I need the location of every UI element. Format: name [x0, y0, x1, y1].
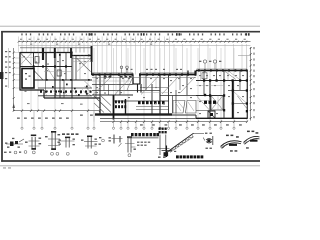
stair flight squares A [115, 100, 117, 103]
room diagonals middle [93, 76, 112, 95]
balcony pier 2 [70, 48, 72, 58]
wall x72 [71, 53, 73, 99]
wall x152 [151, 84, 153, 114]
frame top border [1, 31, 260, 33]
left dimension arrow [13, 103, 15, 108]
top dimension line 2 [18, 44, 251, 46]
left small column blobs [42, 52, 44, 54]
detail 1 label [14, 151, 17, 154]
detail 4 label [66, 152, 69, 155]
wall y95 mid [92, 94, 133, 96]
wall y95 mid-right [160, 95, 196, 97]
top grid number cluster 1 [89, 33, 91, 35]
small closet box [35, 57, 39, 64]
wall y103 right [234, 103, 247, 105]
heavy wall x113 [113, 95, 115, 120]
balcony pier 1 [54, 48, 56, 58]
top grid number row [21, 33, 22, 35]
wall x168 [168, 75, 170, 114]
outline bottom right [172, 114, 196, 116]
wall x60 [59, 53, 61, 99]
binding mark on left frame [0, 72, 3, 79]
notes text block [137, 142, 139, 143]
wall y80 left band [34, 79, 92, 81]
wall band under middle top [92, 77, 196, 79]
x-room [211, 96, 223, 111]
heavy pier left top [42, 48, 44, 60]
leader circles middle [120, 66, 123, 69]
wall x224 [223, 71, 225, 119]
dark room inner specks [25, 73, 27, 74]
balcony squares row [40, 90, 42, 92]
wall y101 mid [114, 100, 169, 102]
bottom-right dimension numbers [140, 124, 143, 125]
right wall top line [197, 68, 248, 70]
wall x146 [145, 75, 147, 91]
outline middle top wall [92, 74, 134, 76]
detail 4 section [62, 133, 65, 135]
faint outer bottom line [0, 165, 260, 167]
detail 7 section [127, 138, 129, 153]
wall x125 [125, 99, 127, 114]
wall x240 [239, 71, 241, 91]
diag room mid-left [47, 68, 55, 80]
wall x76 [75, 56, 77, 81]
wall y95 right [196, 95, 224, 97]
outline bottom middle step [99, 98, 101, 115]
wall y106 mid [136, 106, 169, 108]
wall y88 left band [38, 87, 92, 89]
right column blobs [203, 79, 205, 81]
wall x46 [45, 53, 47, 81]
heavy wall x92 top [91, 46, 93, 62]
balcony top line [20, 47, 92, 49]
detail 5 section [87, 137, 89, 149]
under-plan annotation row [27, 103, 30, 104]
stair diagonal top-left room [21, 53, 32, 65]
right dimension numbers [253, 47, 254, 49]
wall x38 light [38, 53, 40, 67]
detail 3 labels [51, 152, 54, 155]
outline bottom left [20, 89, 44, 91]
detail 2 section [31, 137, 33, 149]
dark room box [22, 69, 34, 89]
bottom-right dimension line [100, 121, 247, 123]
wall x160 [159, 75, 161, 116]
bottom-left dimension numbers [17, 118, 20, 119]
closet box 2 [57, 70, 61, 76]
grid extension lines above plan [18, 37, 20, 53]
top grid number cluster 3 [176, 33, 178, 35]
hatch trapezoid right-b [186, 101, 197, 114]
notch side diagonal [127, 76, 134, 91]
under-wall text middle [104, 76, 107, 78]
detail 10 clips [206, 139, 212, 141]
wall x33.5 [33, 53, 35, 67]
wall x104 [103, 75, 105, 91]
wall x66 [65, 53, 67, 81]
detail 5 label [94, 152, 97, 155]
heavy bottom band [95, 113, 172, 115]
faint outer top line [0, 25, 260, 27]
wall x120 [119, 75, 121, 96]
wall x176 [175, 90, 177, 114]
entry notch stub walls [137, 84, 139, 93]
wall x96 [95, 75, 97, 99]
top dimension line with ticks [18, 41, 251, 43]
top grid number cluster 2 [141, 33, 143, 35]
outline left edge [19, 52, 21, 91]
wall x204 [203, 71, 205, 96]
wall x55 [54, 48, 56, 98]
plan title text [131, 133, 134, 136]
bottom double line [100, 117, 196, 119]
columns on y66 [33, 65, 35, 67]
wall y90 right [228, 90, 247, 92]
hatch room right-3 [197, 97, 209, 110]
detail 2 label [32, 151, 35, 154]
wall y90 mid [92, 90, 160, 92]
wall y58 right part [72, 58, 91, 60]
wall x210 [209, 80, 211, 118]
left margin label [4, 152, 7, 153]
wall x216 [216, 71, 218, 81]
mid interior text specks [96, 78, 98, 79]
detail 8 column section [159, 128, 161, 130]
left extension stubs [15, 52, 21, 54]
heavy wall x232 [232, 80, 234, 118]
wall x172 [172, 96, 174, 114]
middle wall top line [92, 72, 133, 74]
left band hatch [42, 89, 47, 96]
wall y66 [20, 66, 72, 68]
light walls left extra [56, 53, 58, 81]
frame left border [1, 31, 3, 162]
detail 9 stair section [165, 146, 167, 158]
top grid number cluster 4 [246, 33, 248, 35]
entry stubs right [187, 71, 189, 75]
stair flight squares C [138, 101, 141, 104]
light walls middle extra [115, 78, 117, 95]
detail 11 wave [221, 141, 242, 147]
left interior text specks [23, 56, 25, 57]
wall x64 [63, 80, 65, 98]
leader circles right [203, 60, 206, 63]
bottom grid bubbles [21, 111, 23, 127]
stair flight squares B [115, 105, 117, 108]
top dimension numbers [20, 39, 22, 40]
entry box right [202, 73, 207, 79]
detail 6 bars [113, 135, 115, 144]
left dimension numbers [5, 51, 7, 52]
wall y109 mid [136, 109, 169, 111]
double wall x45 [44, 53, 46, 91]
detail 12 wave [244, 136, 260, 142]
right dimension line [250, 47, 252, 121]
dim2 text specks [30, 44, 32, 45]
outline right top wall [195, 71, 197, 75]
hatch trapezoid right-a [173, 101, 185, 114]
wall x187 [186, 75, 188, 96]
light walls right extra [197, 85, 225, 87]
through grid lines [21, 48, 23, 111]
bottom-left dimension line [13, 110, 100, 112]
wall x100 [99, 75, 101, 99]
hatch room right-2 [238, 96, 247, 109]
dark cluster right [208, 111, 215, 118]
detail 9 title text [176, 155, 179, 158]
below frame specks [3, 167, 6, 168]
left inner dimension line [8, 48, 10, 88]
right interior text specks [199, 75, 201, 76]
right inner dimension line [246, 56, 248, 121]
hatch box left-bottom [85, 81, 92, 88]
stair diagonal room 2 [34, 71, 43, 81]
hatch room mid-left [94, 96, 111, 113]
wall y87 mid-right [140, 87, 169, 89]
left dimension line [13, 48, 15, 111]
mid wall text specks [126, 69, 128, 70]
outline top-left unit [20, 52, 72, 54]
wall y96 left band [38, 95, 92, 97]
columns on middle wall [92, 73, 94, 76]
wall y110 right [196, 110, 210, 112]
outline right edge [246, 70, 248, 119]
wall x92 lower [91, 62, 93, 75]
dark squares row right [204, 101, 207, 104]
detail 7 label [128, 154, 131, 157]
detail 1 section [6, 143, 23, 145]
detail 9 inner diagonal [170, 137, 194, 153]
stair diagonal long room [77, 59, 91, 72]
wall x180 [179, 75, 181, 91]
wall y80 right [196, 80, 247, 82]
frame bottom border [1, 160, 260, 162]
wall y84 mid [92, 84, 133, 86]
detail 3 section [51, 132, 53, 150]
wall x108 [108, 85, 110, 96]
columns on right wall [198, 69, 200, 71]
hatch room right-1 [225, 72, 236, 80]
